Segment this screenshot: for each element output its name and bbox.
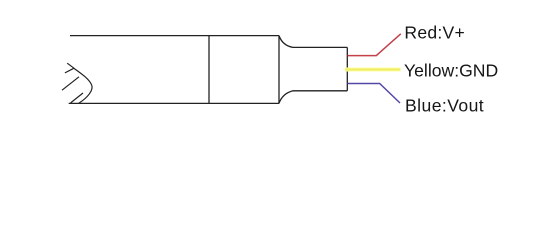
cable body right edge	[278, 36, 280, 104]
break curl tip upper tick	[67, 63, 74, 68]
svg-text:Red:V+: Red:V+	[404, 22, 465, 42]
yellow wire	[345, 68, 401, 70]
cable divider line	[208, 36, 210, 104]
svg-text:Blue:Vout: Blue:Vout	[405, 95, 484, 115]
yellow wire halo	[345, 68, 401, 72]
strain relief top flare	[279, 36, 347, 48]
blue wire	[348, 84, 401, 104]
break hatch line 2	[62, 77, 79, 90]
cable body top line	[70, 35, 279, 37]
break curl tip lower tick	[65, 68, 74, 73]
broken cable end curl	[74, 68, 92, 103]
cable body bottom line	[69, 102, 279, 104]
strain relief bottom flare	[279, 91, 347, 104]
red wire	[348, 34, 401, 56]
connector right edge	[346, 47, 348, 90]
svg-text:Yellow:GND: Yellow:GND	[404, 60, 498, 80]
break hatch line 1	[71, 93, 83, 103]
